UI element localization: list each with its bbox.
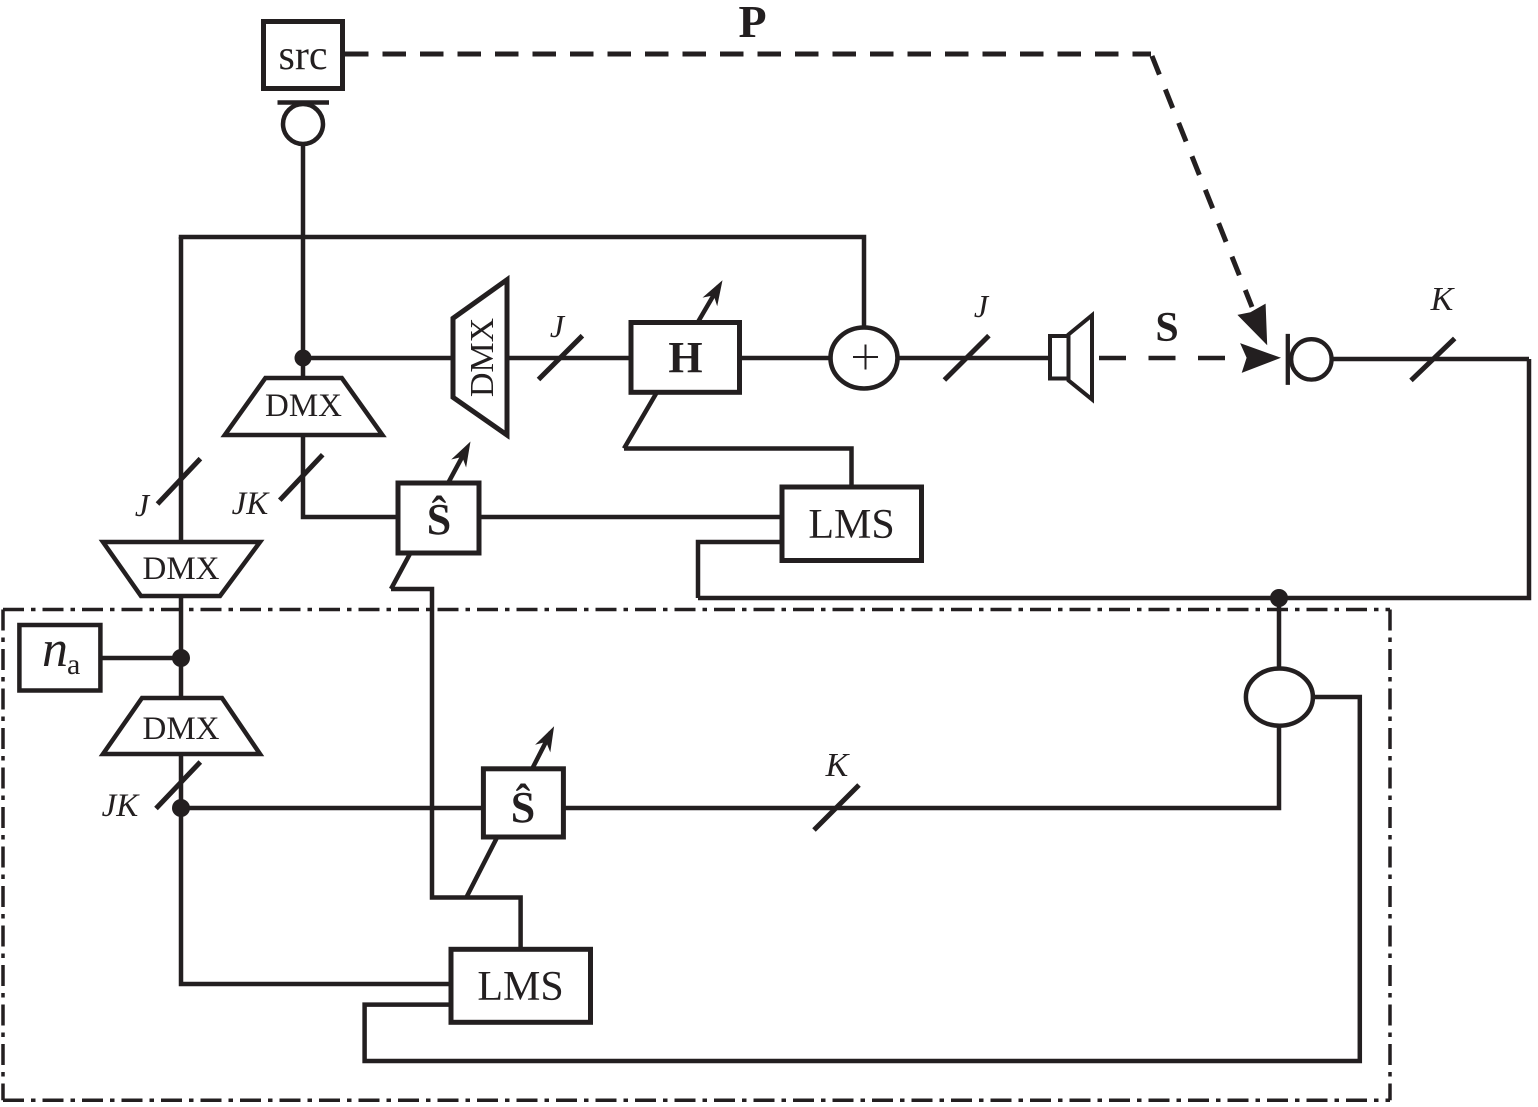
error microphone symbol (bar + circle) [1288, 334, 1332, 385]
wire: LMS1 up to H adaptation [624, 449, 852, 488]
wire: top feedback line y=237 [181, 237, 864, 327]
arrowhead (dashed P path into mic) [1237, 304, 1267, 346]
svg-text:J: J [135, 487, 151, 523]
wire: JK junction down and right to LMS2 [181, 808, 451, 984]
svg-text:src: src [279, 33, 328, 79]
wire: n_a to junction [100, 656, 181, 661]
svg-text:K: K [1430, 281, 1456, 318]
op block LMS 2 [451, 949, 591, 1022]
wire: H to adder [740, 356, 832, 361]
subtractor circle (lower right) [1246, 669, 1313, 726]
adder circle + [831, 328, 898, 389]
wire: src mic down to junction [301, 144, 306, 380]
DMX trapezoid 3 (lower) [103, 698, 260, 754]
svg-text:DMX: DMX [265, 388, 342, 424]
DMX trapezoid 1 (below src junction) [225, 378, 383, 435]
node: junction dot n_a [172, 649, 190, 667]
arrowhead of S-hat-2 adaptation arrow [535, 726, 554, 752]
op block LMS 1 [782, 487, 922, 561]
dashed S path speaker to mic [1099, 356, 1226, 361]
wire: DMX2 down through border to DMX3 [179, 594, 184, 700]
arrowhead of H adaptation arrow [703, 280, 723, 306]
wire: adder to speaker [897, 356, 1050, 361]
slash K (mic output) [1411, 338, 1455, 380]
svg-text:S: S [1155, 305, 1178, 351]
dashed primary path P: diagonal to mic [1152, 56, 1252, 307]
wire: LMS2 up, left, up to S-hat-1 adaptation [391, 589, 521, 949]
src microphone symbol (bar + circle) [278, 103, 330, 145]
svg-text:J: J [974, 288, 990, 324]
wire: junction to vertical DMX4 [303, 356, 455, 361]
slash K (S-hat-2 output bus) [814, 785, 859, 830]
wire: DMX1 down and right to S-hat-1 (JK bus) [303, 433, 398, 517]
arrowhead of S-hat-1 adaptation arrow [451, 442, 470, 468]
svg-text:DMX: DMX [142, 551, 219, 587]
adaptation line through S-hat-2 (drawn under box) [466, 732, 551, 898]
svg-text:K: K [825, 747, 851, 784]
wire: DMX4 to H with J slash [505, 356, 632, 361]
svg-text:JK: JK [102, 788, 141, 824]
node: junction dot at src split [295, 350, 312, 367]
slash J (left bus) [158, 459, 201, 504]
wire: JK junction right to S-hat-2 [181, 806, 483, 811]
svg-text:DMX: DMX [464, 318, 501, 397]
adaptive filter S-hat 1 [398, 483, 479, 553]
wire: mic to right edge [1331, 357, 1529, 362]
wire: mic junction down to subtractor [1277, 598, 1282, 668]
slash J (adder to speaker) [944, 336, 989, 380]
DMX trapezoid 4 (vertical, rotated) [453, 280, 507, 435]
wire: S-hat-2 output right and up to subtractor [564, 726, 1279, 808]
dash-dot acoustic boundary box [3, 610, 1390, 1101]
wire: right vertical down [698, 359, 1529, 598]
wire: left vertical x=181 down to DMX2 [179, 237, 184, 544]
svg-text:n: n [42, 621, 68, 678]
svg-text:LMS: LMS [477, 964, 563, 1010]
slash J (DMX4 to H) [539, 336, 583, 380]
svg-text:J: J [550, 308, 566, 344]
node: junction dot lower JK [172, 799, 190, 817]
noise source box n_a [19, 621, 100, 691]
op block H (white fill covers adaptation line) [631, 323, 740, 393]
wire: error up to LMS1 [698, 542, 782, 598]
wire: DMX3 down to JK junction [179, 752, 184, 810]
svg-text:JK: JK [232, 486, 271, 522]
dashed primary path P: horizontal [345, 54, 1252, 307]
adaptive filter S-hat 2 [483, 769, 563, 837]
wire: subtractor out right, down, left, up into LMS2 [365, 697, 1360, 1061]
slash JK (DMX1 output bus) [280, 455, 323, 501]
adaptation line through S-hat-1 (drawn under box) [391, 448, 467, 589]
adaptation line through H (drawn under box) [624, 286, 719, 449]
src box [264, 22, 343, 89]
svg-text:Ŝ: Ŝ [427, 495, 451, 544]
svg-text:H: H [668, 333, 702, 382]
svg-text:Ŝ: Ŝ [511, 783, 535, 832]
DMX trapezoid 2 (left, wide top) [103, 542, 260, 596]
wire: S-hat-1 to LMS1 [480, 515, 782, 520]
slash JK (lower bus) [156, 762, 200, 809]
svg-text:a: a [67, 648, 80, 681]
svg-text:LMS: LMS [808, 502, 894, 548]
node: junction dot error split [1270, 589, 1288, 607]
svg-text:DMX: DMX [142, 711, 219, 747]
svg-text:P: P [738, 0, 766, 47]
speaker symbol [1050, 315, 1092, 399]
arrowhead (dashed S path into mic) [1240, 343, 1281, 373]
